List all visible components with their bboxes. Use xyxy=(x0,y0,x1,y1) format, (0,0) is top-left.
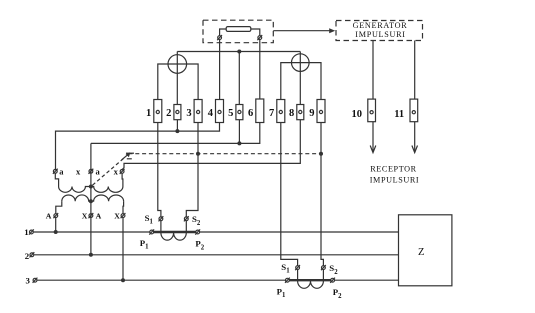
terminal 3 xyxy=(194,100,202,123)
CT2 secondary winding xyxy=(298,281,324,288)
wire top potential link xyxy=(177,51,300,53)
wire terminal 4 up to fuse contact xyxy=(219,40,221,100)
svg-text:X: X xyxy=(114,212,120,221)
CT2 terminal P1 xyxy=(286,278,290,282)
CT2 terminal P2 xyxy=(331,278,335,282)
wire terminal 5 down to voltage bus B xyxy=(238,120,240,144)
wire impulse link to generator xyxy=(273,30,331,32)
svg-text:IMPULSURI: IMPULSURI xyxy=(370,176,420,185)
voltage bus A (VT a1 to terminal 4) xyxy=(56,123,220,170)
svg-text:RECEPTOR: RECEPTOR xyxy=(370,165,417,174)
CT1 secondary winding xyxy=(161,233,186,240)
svg-text:4: 4 xyxy=(208,108,214,119)
node tap to terminal 5 xyxy=(237,50,241,54)
CT1 primary bar xyxy=(152,231,198,233)
wire generator to terminal 10 xyxy=(372,41,374,100)
CT2 primary bar xyxy=(287,279,332,281)
svg-text:x: x xyxy=(114,167,119,177)
wire terminal 6 up to fuse contact xyxy=(259,40,261,100)
wire fuse right end to contact xyxy=(251,29,260,36)
svg-text:2: 2 xyxy=(25,251,30,261)
CT2 terminal S2 xyxy=(322,270,324,280)
receptor arrow wire 11 xyxy=(414,122,416,152)
wire right coil chord terminal 7 to terminal 9 xyxy=(281,63,321,100)
svg-text:1: 1 xyxy=(24,227,28,237)
svg-text:X: X xyxy=(82,212,88,221)
contact circle (terminal 6 link) xyxy=(258,36,262,40)
earth link dashed bus xyxy=(129,153,322,155)
wire through right coil vertical to terminal 8 xyxy=(299,52,301,105)
generator impulsuri dashed box xyxy=(336,21,423,41)
meter voltage coil circle left xyxy=(168,55,187,74)
fuse F xyxy=(226,27,251,32)
earth link dashed diagonal xyxy=(93,159,124,186)
wire terminal 1 down to CT1 S1 xyxy=(158,123,161,217)
wire terminal 3 down to CT1 S2 xyxy=(186,123,198,217)
svg-text:A: A xyxy=(46,212,52,221)
CT1 terminal S2 xyxy=(185,221,187,231)
load box Z xyxy=(399,215,452,286)
svg-text:8: 8 xyxy=(289,108,294,119)
VT centre secondary terminal x1/a2 xyxy=(89,169,93,173)
VT T1 primary winding xyxy=(62,195,91,201)
earth arrow glyph xyxy=(122,153,131,160)
terminal 10 xyxy=(368,99,376,122)
wire left coil chord terminal 1 to terminal 3 xyxy=(158,64,198,100)
CT2 terminal S1 xyxy=(297,270,299,280)
VT T1 primary terminal A xyxy=(54,214,58,218)
CT1 terminal P1 xyxy=(150,230,154,234)
node VT primary junction xyxy=(89,199,93,203)
CT1 terminal P2 xyxy=(196,230,200,234)
terminal 7 xyxy=(277,100,285,123)
VT T1 secondary winding xyxy=(59,187,91,193)
VT T2 secondary winding xyxy=(91,187,123,193)
svg-text:6: 6 xyxy=(248,108,253,119)
svg-text:3: 3 xyxy=(25,276,30,286)
svg-text:3: 3 xyxy=(186,108,191,119)
terminal 4 xyxy=(216,100,224,123)
node VT secondary junction xyxy=(89,185,93,189)
receptor arrow wire 10 xyxy=(372,122,374,152)
wire terminal 8 down to VT x2 xyxy=(122,120,300,170)
wire a1 to T1 secondary winding xyxy=(55,173,58,186)
wire terminal 2 down to voltage bus A xyxy=(176,120,178,131)
svg-text:11: 11 xyxy=(394,109,404,120)
phase 2 conductor xyxy=(34,254,398,256)
svg-text:A: A xyxy=(96,212,102,221)
svg-text:GENERATOR: GENERATOR xyxy=(353,21,408,30)
CT1 terminal S1 xyxy=(160,221,162,231)
svg-text:2: 2 xyxy=(166,108,171,119)
wire fuse left end to contact xyxy=(220,29,227,36)
terminal 9 xyxy=(317,100,325,123)
terminal 5 xyxy=(236,105,243,120)
VT T1 secondary terminal a xyxy=(53,169,57,173)
terminal 1 xyxy=(154,100,162,123)
wire A1 down to phase 1 xyxy=(55,218,57,233)
terminal 11 xyxy=(410,99,418,122)
contact circle (terminal 4 link) xyxy=(218,36,222,40)
svg-text:1: 1 xyxy=(146,108,151,119)
voltage bus B (VT centre to terminal 6) xyxy=(91,123,260,144)
wire generator to terminal 11 xyxy=(414,41,416,100)
phase 3 conductor xyxy=(37,279,398,281)
phase 1 conductor xyxy=(34,231,399,233)
VT T2 secondary terminal x xyxy=(120,170,124,174)
wire T1 primary to terminal A1 xyxy=(56,201,62,214)
wire terminal 9 down to CT2 S2 xyxy=(321,123,323,266)
terminal 2 xyxy=(174,105,181,120)
wire X2 down to phase 3 xyxy=(122,218,124,281)
wire x2 to T2 secondary winding xyxy=(121,173,124,186)
fuse enclosure dashed box xyxy=(203,20,273,43)
terminal 6 xyxy=(256,99,264,123)
terminal 8 xyxy=(297,105,304,120)
VT T2 primary terminal X xyxy=(121,214,125,218)
wire through left coil vertical to terminal 2 xyxy=(176,52,178,105)
VT centre primary terminal X1/A2 xyxy=(89,214,93,218)
svg-text:7: 7 xyxy=(269,108,274,119)
svg-text:a: a xyxy=(59,167,64,177)
VT T2 primary winding xyxy=(91,195,124,201)
meter voltage coil circle right xyxy=(292,54,310,72)
svg-text:9: 9 xyxy=(309,108,314,119)
wire terminal 7 down to CT2 S1 xyxy=(281,123,298,266)
svg-text:Z: Z xyxy=(418,247,424,258)
svg-text:IMPULSURI: IMPULSURI xyxy=(355,30,405,39)
wire T2 primary to terminal X2 xyxy=(122,201,125,214)
svg-text:5: 5 xyxy=(228,108,233,119)
VT centre vertical wire xyxy=(90,143,92,254)
svg-text:10: 10 xyxy=(352,109,363,120)
